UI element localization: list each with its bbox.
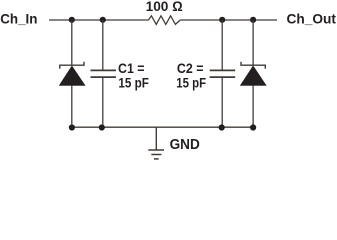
node junction dot bottom (C1) — [99, 124, 105, 130]
node junction dot top-right (diode D2 branch) — [250, 17, 256, 23]
wire D2 anode vertical — [252, 85, 254, 127]
svg-text:GND: GND — [170, 137, 200, 153]
node junction dot top (C1 branch) — [100, 17, 106, 23]
node junction dot bottom-right (D2) — [250, 124, 256, 130]
wire top rail right segment — [180, 19, 277, 21]
wire D1 cathode vertical — [71, 20, 73, 65]
node junction dot top-left (diode D1 branch) — [69, 17, 75, 23]
capacitor C2 plates — [210, 69, 236, 71]
node junction dot bottom (C2) — [219, 124, 225, 130]
wire C2 top vertical — [221, 20, 223, 70]
diode D1 triangle (anode) — [59, 66, 85, 85]
ground symbol bars — [148, 149, 164, 151]
diode D2 (zener, cathode bar with bent ends, mirrored) — [241, 62, 265, 69]
svg-text:15 pF: 15 pF — [176, 75, 206, 91]
wire D2 cathode vertical — [252, 20, 254, 65]
svg-text:Ch_In: Ch_In — [0, 11, 37, 27]
wire C1 bottom vertical — [102, 78, 104, 128]
svg-text:Ch_Out: Ch_Out — [287, 11, 337, 27]
wire GND stem — [155, 127, 157, 149]
svg-text:100 Ω: 100 Ω — [146, 0, 183, 14]
diode D2 triangle (anode) — [240, 66, 266, 85]
resistor R (100 Ω) zigzag — [149, 16, 181, 25]
wire top rail left segment — [49, 19, 149, 21]
diode D1 (zener, cathode bar with bent ends) — [60, 62, 84, 69]
node junction dot bottom-left (D1) — [69, 124, 75, 130]
wire D1 anode vertical — [71, 85, 73, 127]
svg-text:15 pF: 15 pF — [118, 75, 149, 91]
wire bottom rail — [72, 126, 253, 128]
node junction dot top (C2 branch) — [219, 17, 225, 23]
wire C2 bottom vertical — [221, 78, 223, 128]
capacitor C1 plates — [91, 69, 117, 71]
wire C1 top vertical — [102, 20, 104, 70]
